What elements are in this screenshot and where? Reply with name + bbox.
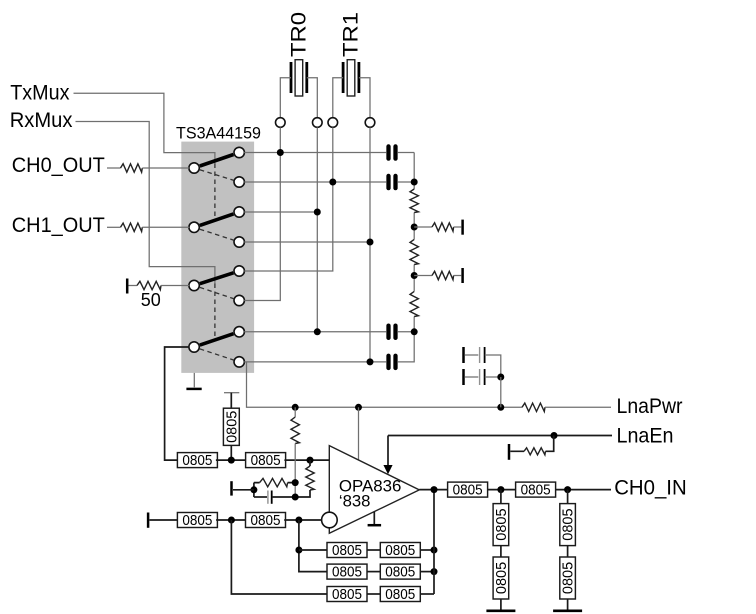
wire out to label <box>556 489 611 491</box>
svg-text:0805: 0805 <box>521 483 551 499</box>
switch SW3 top throw contact <box>234 266 244 276</box>
ground mux <box>186 373 201 389</box>
node ladder D <box>411 328 418 335</box>
capacitor row7 <box>389 326 396 338</box>
svg-text:TxMux: TxMux <box>10 81 70 105</box>
switch SW1 top throw contact <box>234 147 244 157</box>
wire chain-two stub1 <box>567 490 569 504</box>
termination bar cap1 <box>462 347 465 363</box>
resistor 0805 chain-two lower <box>560 557 577 599</box>
wire chain-one stub1 <box>500 490 502 504</box>
wire row1 cap to ladder <box>398 152 414 154</box>
svg-text:50: 50 <box>141 290 161 310</box>
wire inv a down to row3 <box>231 520 327 594</box>
net CH0_OUT label <box>12 153 105 177</box>
wire LnaEn <box>388 435 612 437</box>
node out b <box>564 486 571 493</box>
switch SW1 dashed arm (open to bottom throw) <box>200 170 234 180</box>
resistor LnaPwr <box>522 403 545 411</box>
wire LnaPwr to label <box>545 406 611 408</box>
resistor 0805 row-two right <box>380 564 420 581</box>
switch SW4 bottom throw contact <box>234 357 244 367</box>
svg-text:0805: 0805 <box>224 411 240 443</box>
wire SW2 top throw row <box>244 211 317 213</box>
termination bar cap2 <box>462 369 465 385</box>
switch SW4 pole contact <box>189 342 199 352</box>
op-amp ground <box>368 512 382 526</box>
node inv b <box>295 517 302 524</box>
transformer TR1 <box>333 12 370 118</box>
termination bar fb <box>230 481 233 495</box>
op-amp OPA836 body <box>329 446 419 534</box>
wire row-one right <box>420 549 434 551</box>
wire fb to bar <box>233 489 254 491</box>
wire bias bar to R <box>230 393 232 409</box>
ground chain-one <box>486 609 515 612</box>
svg-text:TR1: TR1 <box>339 12 363 57</box>
resistor 0805 Oa <box>448 482 488 499</box>
wire SW4 bottom throw row <box>244 361 386 363</box>
switch SW3 arm (closed to top throw) <box>200 273 234 284</box>
node rowB bias <box>228 457 235 464</box>
resistor tapB <box>432 223 454 231</box>
wire row-three right <box>420 593 434 595</box>
svg-text:‘838: ‘838 <box>339 493 371 511</box>
node out a <box>497 486 504 493</box>
wire ladder tapB lead <box>414 226 432 228</box>
switch SW3 pole contact <box>189 280 199 290</box>
svg-text:CH0_IN: CH0_IN <box>614 476 687 500</box>
svg-text:LnaPwr: LnaPwr <box>617 394 683 418</box>
net LnaEn label <box>617 423 674 447</box>
resistor 0805 chain-one upper <box>493 504 510 546</box>
node rail R1 <box>292 404 299 411</box>
termination bar tapB <box>461 220 464 235</box>
wire CH0_OUT to SW1 pole <box>142 167 189 169</box>
pin TR0 right <box>313 118 323 128</box>
wire inv mid <box>216 519 247 521</box>
resistor 0805 row-two left <box>327 564 367 581</box>
termination bar 50-ohm <box>126 279 129 294</box>
switch SW3 bottom throw contact <box>234 295 244 305</box>
wire fb left node <box>253 483 255 497</box>
resistor 0805 row-three right <box>380 587 420 604</box>
resistor 0805 Ib <box>246 513 286 530</box>
wire SW1 top throw row <box>244 152 386 154</box>
net RxMux label <box>10 108 73 132</box>
node output <box>431 486 438 493</box>
node inv a <box>228 517 235 524</box>
svg-text:0805: 0805 <box>385 587 415 603</box>
capacitor fb C <box>254 491 295 504</box>
node ladder C <box>411 272 418 279</box>
svg-text:0805: 0805 <box>385 543 415 559</box>
net CH1_OUT label <box>12 213 105 237</box>
wire R1 bottom to RC node <box>294 444 296 498</box>
coupling dashes TxMux SW1-SW2 <box>214 164 216 221</box>
label 50 <box>141 290 161 310</box>
op-amp label 838 <box>339 493 371 511</box>
transformer TR0 <box>280 12 317 118</box>
wire caps node to rail <box>500 377 502 407</box>
wire CH1_OUT to SW2 pole <box>142 226 189 228</box>
resistor 0805 Ia <box>177 513 217 530</box>
svg-text:CH1_OUT: CH1_OUT <box>12 213 105 237</box>
wire chain-one stub2 <box>500 546 502 557</box>
resistor 0805 Ob <box>516 482 556 499</box>
switch SW4 top throw contact <box>234 327 244 337</box>
capacitor row1 <box>389 146 396 158</box>
capacitor row8 <box>389 356 396 368</box>
wire SW4 pole to lower network <box>165 347 190 460</box>
wire RxMux <box>76 122 215 284</box>
wire SW2 bottom throw row <box>244 241 370 243</box>
coupling dashes RxMux SW3-SW4 <box>214 284 216 340</box>
node rowB Rtop <box>307 457 314 464</box>
switch SW3 dashed arm (open to bottom throw) <box>200 287 234 298</box>
resistor ladder R2 <box>410 239 418 264</box>
arrow into opamp <box>383 465 392 474</box>
resistor ladder R1 <box>410 189 418 213</box>
wire row-two right <box>420 571 434 573</box>
resistor 0805 row-one right <box>380 543 420 560</box>
resistor tapC <box>432 271 454 279</box>
ground chain-two <box>553 609 582 612</box>
node fb right bottom <box>292 494 299 501</box>
svg-text:TR0: TR0 <box>287 12 311 57</box>
node LnaEn branch <box>551 432 558 439</box>
pin TR1 left <box>328 118 338 128</box>
wire tapB to bar <box>454 226 462 228</box>
node ladder B <box>411 224 418 231</box>
node fbdiv row2 <box>431 568 438 575</box>
resistor 0805 row-one left <box>327 543 367 560</box>
wire 50 to SW3 pole <box>161 285 189 287</box>
wire TR0 right pin down <box>316 127 318 331</box>
wire rowB mid <box>216 459 247 461</box>
node fb left <box>250 486 257 493</box>
label TS3A44159 <box>176 124 261 143</box>
svg-text:0805: 0805 <box>251 513 281 529</box>
resistor input shunt <box>306 466 314 490</box>
svg-text:0805: 0805 <box>182 453 212 469</box>
node row7 <box>314 328 321 335</box>
node rail opamp <box>355 404 362 411</box>
svg-text:0805: 0805 <box>561 562 577 594</box>
svg-text:RxMux: RxMux <box>10 108 73 132</box>
wire output down <box>433 490 435 594</box>
wire inv bar to R <box>150 519 179 521</box>
svg-text:0805: 0805 <box>332 587 362 603</box>
wire ladder tapC lead <box>414 275 432 277</box>
switch SW2 dashed arm (open to bottom throw) <box>200 229 234 240</box>
switch SW4 dashed arm (open to bottom throw) <box>200 349 234 360</box>
pin TR1 right <box>365 118 375 128</box>
node rail caps <box>497 404 504 411</box>
wire TR0 left pin down to SW3 bottom throw <box>244 127 280 300</box>
svg-text:0805: 0805 <box>182 513 212 529</box>
capacitor row2 <box>389 176 396 188</box>
wire LnaEn branch <box>510 436 553 452</box>
wire rail to opamp V+ <box>358 407 360 460</box>
wire CH0_OUT lead <box>107 167 121 169</box>
wire inv to bubble <box>284 519 321 521</box>
wire TR1 left pin down to SW3 top throw <box>244 127 333 271</box>
switch SW2 pole contact <box>189 222 199 232</box>
wire row7 cap to ladder <box>398 331 414 333</box>
wire rail R1 lead <box>294 407 296 417</box>
net TxMux label <box>10 81 70 105</box>
wire row-three mid <box>367 593 380 595</box>
svg-text:0805: 0805 <box>332 565 362 581</box>
termination bar tapC <box>461 268 464 283</box>
wire opamp output <box>419 489 447 491</box>
wire chain-two stub2 <box>567 546 569 557</box>
resistor fb R <box>260 478 288 486</box>
wire chain-two stub3 <box>567 599 569 610</box>
node caps join <box>497 374 504 381</box>
wire SW1 bottom throw row <box>244 181 386 183</box>
switch SW1 arm (closed to top throw) <box>200 155 234 167</box>
net CH0_IN label <box>614 476 687 500</box>
node row1 left <box>295 547 302 554</box>
svg-text:TS3A44159: TS3A44159 <box>176 124 261 143</box>
svg-text:0805: 0805 <box>385 565 415 581</box>
resistor ladder R3 <box>410 291 418 316</box>
switch SW2 arm (closed to top throw) <box>200 214 234 226</box>
wire SW4 top throw row <box>244 331 386 333</box>
termination bar inv row <box>147 513 150 528</box>
node fbdiv row1 <box>431 547 438 554</box>
resistor series CH0_OUT <box>121 164 143 172</box>
resistor 50 <box>137 281 161 289</box>
node row8 <box>367 358 374 365</box>
termination bar bias <box>224 392 239 394</box>
svg-text:CH0_OUT: CH0_OUT <box>12 153 105 177</box>
svg-text:0805: 0805 <box>251 453 281 469</box>
node ladder A <box>411 179 418 186</box>
resistor LnaEn pulldown <box>524 448 546 455</box>
capacitor decoupling C2 <box>465 369 501 385</box>
resistor 0805 Bb <box>246 453 286 470</box>
wire row1 left <box>299 549 327 551</box>
resistor rail-to-fb <box>291 417 299 444</box>
resistor 0805 chain-two upper <box>560 504 577 546</box>
wire LnaPwr rail <box>247 362 523 407</box>
svg-text:LnaEn: LnaEn <box>617 423 674 447</box>
wire ladder segments <box>413 153 415 332</box>
capacitor decoupling C1 <box>465 347 501 377</box>
termination bar LnaEn <box>508 444 511 460</box>
svg-text:0805: 0805 <box>494 508 510 540</box>
switch SW1 pole contact <box>189 163 199 173</box>
wire CH1_OUT lead <box>107 226 121 228</box>
svg-text:0805: 0805 <box>494 562 510 594</box>
wire tapC to bar <box>454 275 462 277</box>
wire inv b down <box>299 520 327 572</box>
wire enable arrow stem <box>387 436 389 467</box>
wire row-one mid <box>367 549 380 551</box>
wire 50 lead <box>129 285 138 287</box>
wire out mid <box>488 489 516 491</box>
switch SW2 top throw contact <box>234 207 244 217</box>
resistor series CH1_OUT <box>121 223 143 231</box>
wire shunt leads <box>295 460 310 497</box>
wire bias R to node <box>230 445 232 460</box>
node row4 <box>367 239 374 246</box>
wire rowB to opamp <box>284 459 329 461</box>
net LnaPwr label <box>617 394 683 418</box>
switch SW4 arm (closed to top throw) <box>200 334 234 345</box>
pin TR0 left <box>276 118 286 128</box>
svg-text:0805: 0805 <box>332 543 362 559</box>
wire fb R leads <box>254 482 295 484</box>
node fb right top <box>292 479 299 486</box>
node row3 <box>314 209 321 216</box>
mux IC TS3A44159 body <box>181 142 254 373</box>
wire row8 cap up to ladder <box>398 332 414 362</box>
resistor 0805 chain-one lower <box>493 557 510 599</box>
wire TxMux <box>74 93 215 163</box>
op-amp label OPA836 <box>339 477 402 495</box>
wire chain-one stub3 <box>500 599 502 610</box>
resistor 0805 Ba <box>177 453 217 470</box>
wire row-two mid <box>367 571 380 573</box>
svg-text:0805: 0805 <box>453 483 483 499</box>
wire TR1 right pin down <box>369 127 371 362</box>
resistor 0805 row-three left <box>327 587 367 604</box>
wire row2 cap to ladder <box>398 181 414 183</box>
switch SW2 bottom throw contact <box>234 237 244 247</box>
resistor 0805 bias top <box>223 408 240 445</box>
switch SW1 bottom throw contact <box>234 177 244 187</box>
node row2 <box>329 179 336 186</box>
node row1 <box>277 149 284 156</box>
svg-text:0805: 0805 <box>561 508 577 540</box>
op-amp inverting bubble <box>322 512 338 528</box>
